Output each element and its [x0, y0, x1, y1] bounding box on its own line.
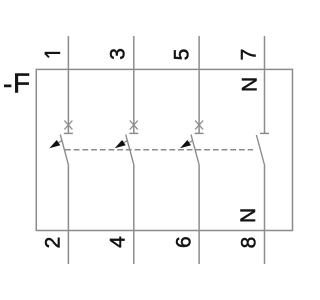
neutral label N bottom: [237, 208, 260, 223]
pole 3 circuit-breaker X symbol: [195, 121, 203, 130]
svg-text:F: F: [13, 67, 30, 98]
pole 3 trip arrowhead: [180, 140, 191, 148]
pole 2 bottom wire (terminal 4): [133, 165, 135, 264]
pole 3 top wire (terminal 5): [198, 36, 200, 133]
terminal label 5: [170, 49, 193, 61]
pole 1 trip arrow stub: [59, 141, 62, 143]
pole 2 moving contact blade: [126, 135, 134, 165]
terminal label 3: [107, 48, 130, 60]
neutral pole top wire (terminal 7): [264, 36, 266, 133]
breaker outline box: [36, 69, 292, 230]
pole 1 top wire (terminal 1): [67, 36, 69, 133]
svg-text:N: N: [238, 77, 261, 92]
pole 3 moving contact blade: [191, 135, 199, 165]
pole 1 bottom wire (terminal 2): [67, 165, 69, 264]
pole 3 fixed contact tick: [195, 132, 204, 134]
pole 1 circuit-breaker X symbol: [64, 121, 72, 130]
pole 1 moving contact blade: [60, 135, 68, 165]
terminal label 6: [173, 236, 196, 248]
terminal label 7: [237, 49, 260, 61]
svg-text:N: N: [237, 208, 260, 223]
svg-text:4: 4: [106, 236, 129, 248]
pole 3 bottom wire (terminal 6): [198, 165, 200, 264]
terminal label 4: [106, 236, 129, 248]
pole 3 trip arrow stub: [189, 141, 192, 143]
pole 1 trip arrowhead: [49, 140, 60, 148]
mechanical linkage dashed line: [65, 149, 253, 151]
terminal label 8: [237, 237, 260, 249]
svg-text:2: 2: [41, 237, 64, 249]
pole 2 circuit-breaker X symbol: [130, 121, 138, 130]
svg-text:5: 5: [170, 49, 193, 61]
pole 2 fixed contact tick: [129, 132, 138, 134]
pole 2 trip arrowhead: [115, 140, 126, 148]
pole 1 fixed contact tick: [64, 132, 73, 134]
svg-text:7: 7: [237, 49, 260, 61]
terminal label 1 (rotated digit drawn as strokes): [45, 53, 61, 58]
pole 2 trip arrow stub: [124, 141, 127, 143]
neutral label N top: [238, 77, 261, 92]
svg-text:-: -: [3, 68, 12, 99]
neutral pole moving contact blade: [256, 135, 264, 165]
neutral pole fixed contact tick: [260, 132, 269, 134]
neutral pole bottom wire (terminal 8): [264, 165, 266, 264]
svg-text:3: 3: [107, 48, 130, 60]
terminal label 2: [41, 237, 64, 249]
svg-text:8: 8: [237, 237, 260, 249]
svg-text:6: 6: [173, 236, 196, 248]
pole 2 top wire (terminal 3): [133, 36, 135, 133]
